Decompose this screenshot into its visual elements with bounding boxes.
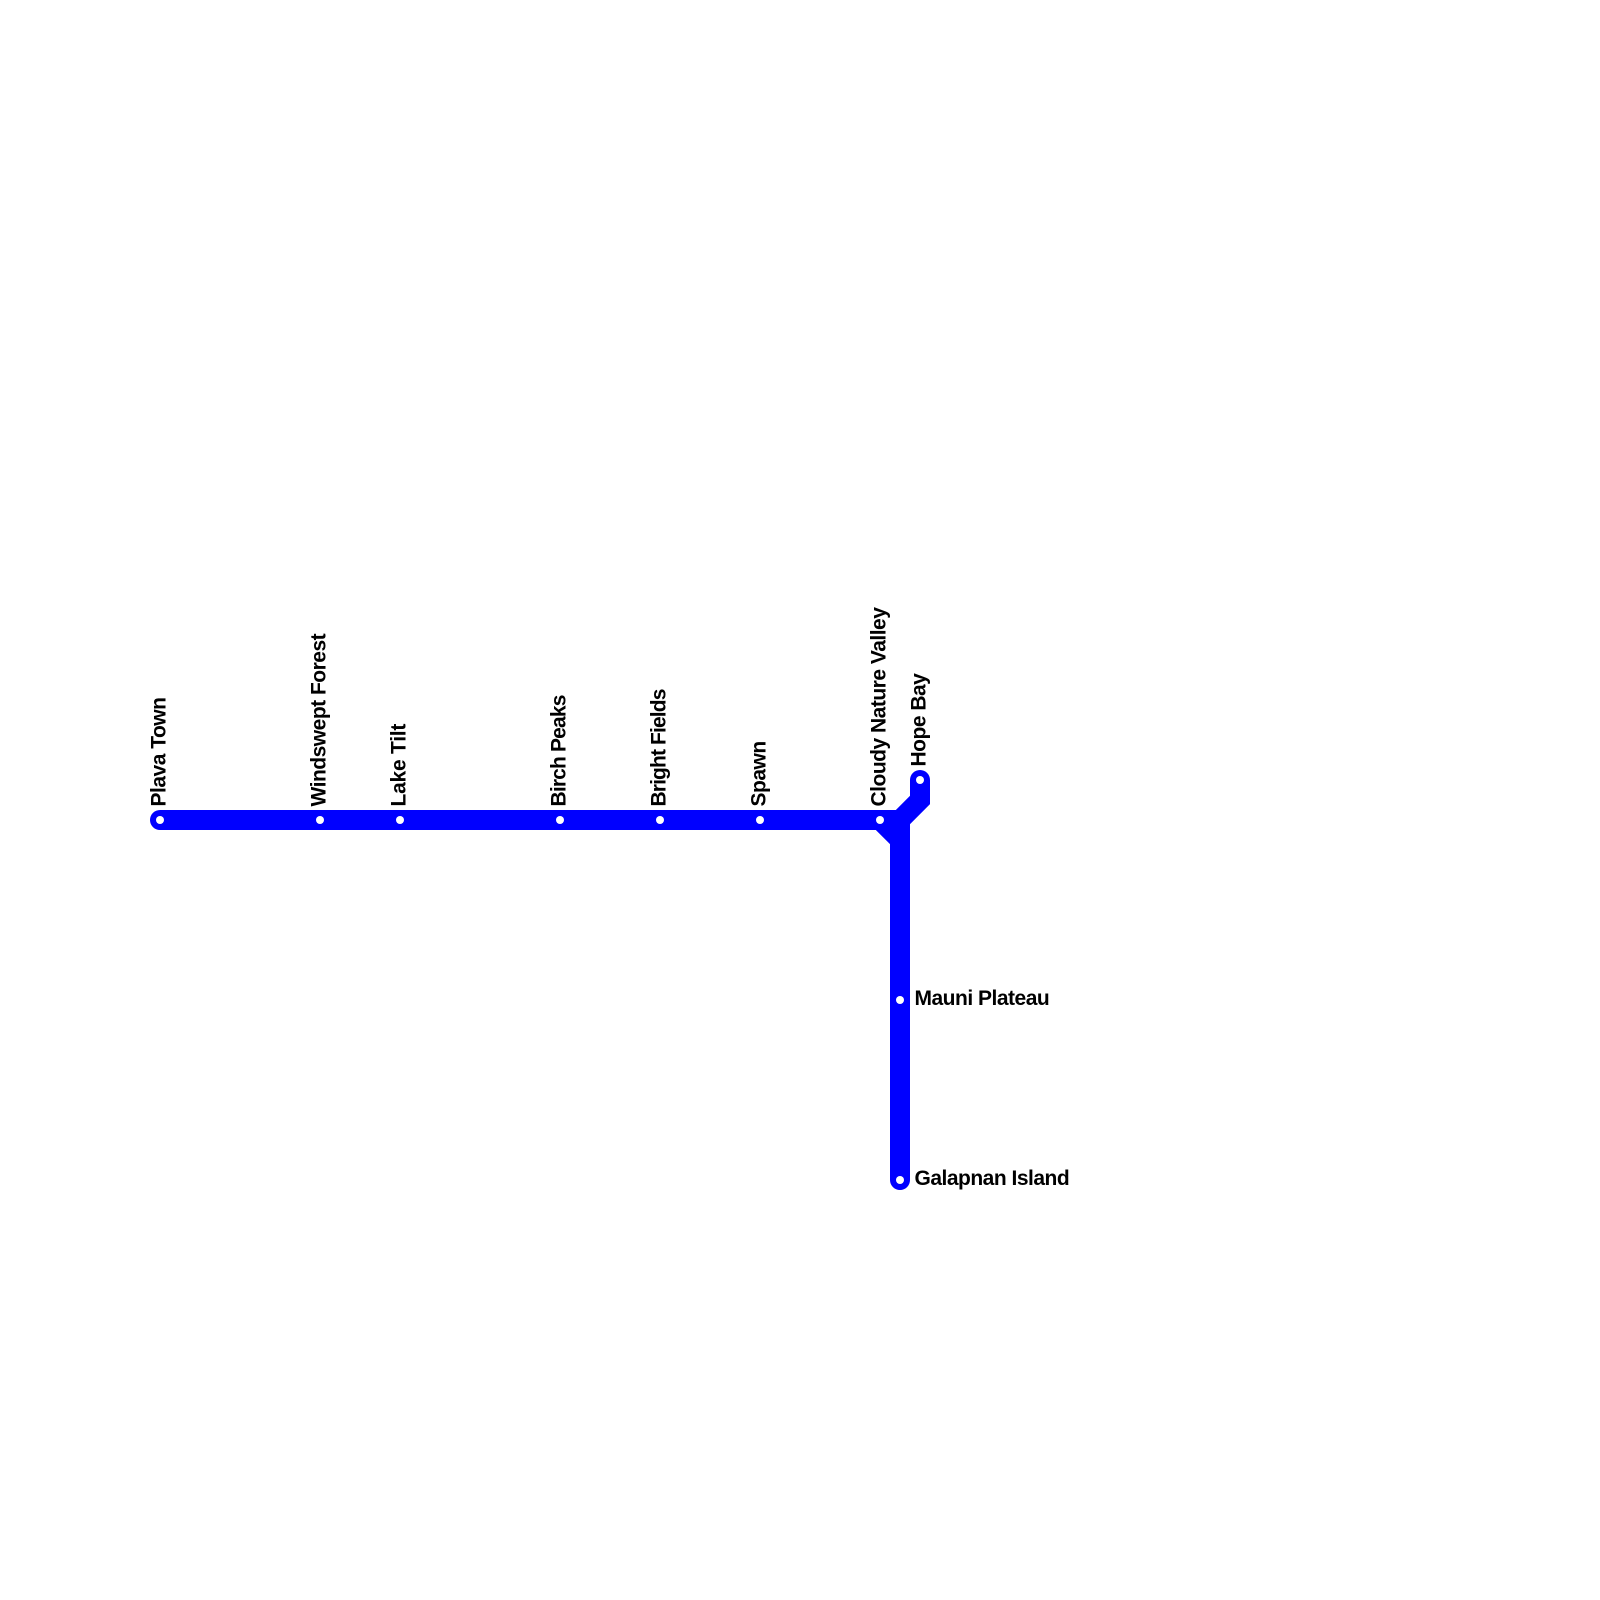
svg-text:Galapnan Island: Galapnan Island [915,1167,1070,1190]
svg-text:Plava Town: Plava Town [148,698,171,807]
svg-text:Spawn: Spawn [748,741,771,806]
svg-text:Lake Tilt: Lake Tilt [388,724,411,807]
svg-text:Cloudy Nature Valley: Cloudy Nature Valley [868,607,891,807]
svg-text:Windswept Forest: Windswept Forest [308,633,331,806]
svg-text:Birch Peaks: Birch Peaks [548,695,571,806]
svg-text:Mauni Plateau: Mauni Plateau [915,987,1050,1010]
svg-text:Bright Fields: Bright Fields [648,689,671,806]
svg-text:Hope Bay: Hope Bay [908,673,931,767]
